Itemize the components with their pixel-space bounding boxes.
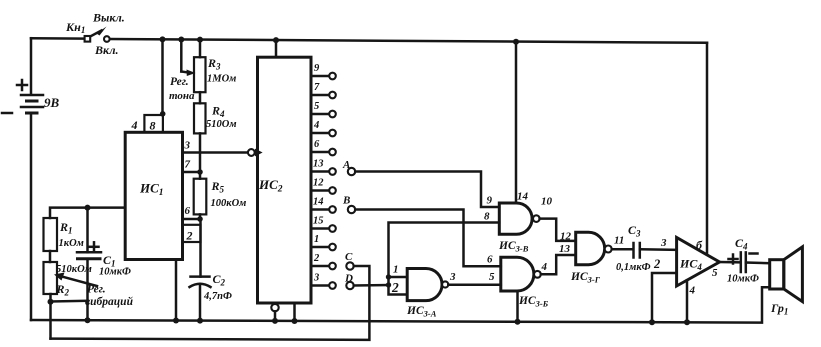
svg-text:6: 6	[314, 139, 320, 150]
resistor R4 510Ом	[194, 103, 206, 133]
svg-text:4,7пФ: 4,7пФ	[203, 291, 232, 302]
gate IC3-Б (NAND)	[501, 257, 541, 291]
svg-text:12: 12	[560, 231, 572, 243]
svg-text:3: 3	[449, 271, 456, 283]
switch Кн1	[85, 27, 110, 42]
svg-text:вибраций: вибраций	[85, 295, 134, 308]
wire R4 to pin7 node	[199, 133, 202, 172]
node D	[346, 282, 353, 289]
svg-text:Рег.: Рег.	[87, 284, 106, 296]
IC2 second bottom lead	[293, 303, 296, 321]
IC1 pin 2 box	[183, 225, 201, 242]
counter IC2 body	[258, 57, 312, 303]
svg-text:2: 2	[653, 257, 660, 271]
svg-text:8: 8	[484, 211, 490, 223]
wire R1 to R2	[49, 251, 52, 262]
capacitor C3 0,1мкФ	[634, 243, 677, 258]
wire: node A to gate IC3-В pin 9	[355, 172, 499, 208]
clock input symbol into IC2	[248, 149, 263, 157]
svg-text:5: 5	[489, 271, 495, 283]
wire: IC3-А input tie and to IC3-В pin 8	[386, 223, 500, 295]
speaker Гр1	[770, 247, 803, 302]
gate IC3-Г (NAND)	[576, 232, 612, 264]
svg-text:6: 6	[185, 205, 191, 217]
svg-text:5: 5	[314, 101, 319, 112]
gate IC3-В (NAND)	[499, 203, 539, 234]
node A	[348, 168, 355, 175]
svg-text:15: 15	[313, 216, 324, 227]
svg-text:10: 10	[541, 196, 553, 208]
svg-text:10мкФ: 10мкФ	[727, 274, 759, 285]
svg-text:тона: тона	[169, 90, 195, 102]
wire pin6 node down to C2	[199, 219, 202, 277]
svg-text:2: 2	[186, 229, 193, 243]
svg-text:1: 1	[314, 234, 319, 245]
svg-text:1: 1	[393, 264, 399, 276]
battery GB1 9В	[2, 38, 43, 320]
resistor R5 100кОм	[194, 172, 207, 219]
capacitor C4 10мкФ (electrolytic)	[729, 252, 770, 272]
node C	[346, 262, 353, 269]
svg-text:3: 3	[660, 237, 667, 249]
wire: IC3-Б pin 7 to ground	[516, 291, 519, 322]
svg-text:А: А	[342, 159, 350, 171]
op-amp IC4	[677, 238, 720, 287]
svg-text:6: 6	[487, 254, 493, 266]
svg-text:0,1мкФ: 0,1мкФ	[616, 262, 651, 273]
wire: IC3-Г output to C3	[612, 248, 633, 251]
svg-text:5: 5	[712, 267, 718, 279]
wire: +9V top rail	[31, 38, 707, 43]
wire: node B to gate IC3-Б pin 6	[355, 210, 501, 267]
op IC1 (timer) body	[125, 132, 182, 259]
svg-text:8: 8	[150, 119, 156, 133]
wire: IC1 pin 1 to ground	[175, 260, 178, 321]
wire: IC1 pin 7 stub	[183, 169, 203, 175]
svg-text:3: 3	[313, 273, 319, 284]
IC2 output pin stubs with circles	[311, 73, 336, 289]
wire: IC4 pin 2 to ground	[652, 273, 677, 322]
wire: IC4 pin 4 to ground	[686, 280, 689, 322]
gate IC3-А (NAND)	[407, 269, 448, 301]
wire: IC4 pin 6 to +9V rail	[706, 43, 709, 255]
wire: IC3-В output to IC3-Г pin 12	[540, 219, 576, 241]
svg-text:7: 7	[314, 82, 320, 93]
R3 wiper wire from rail	[181, 40, 195, 77]
svg-text:14: 14	[313, 197, 324, 208]
svg-text:D: D	[344, 273, 353, 285]
svg-text:9В: 9В	[44, 95, 60, 110]
svg-text:2: 2	[313, 253, 320, 264]
wire: ground bottom rail	[31, 287, 770, 322]
wire: IC3-А output to IC3-Б pin 5	[448, 283, 501, 286]
svg-text:Выкл.: Выкл.	[92, 11, 125, 25]
svg-text:С: С	[345, 251, 353, 263]
wire: rail drop to IC3-В pin 14	[515, 42, 518, 203]
svg-text:13: 13	[313, 159, 324, 170]
capacitor C1 10мкФ (electrolytic)	[77, 208, 101, 321]
svg-text:9: 9	[314, 63, 320, 74]
svg-text:4: 4	[689, 285, 696, 297]
wire: R1/C1 top node to IC1 left edge	[50, 205, 125, 218]
wire: rail drop to IC2 top	[275, 40, 278, 57]
node B	[348, 206, 355, 213]
wire: IC3-Б output to IC3-Г pin 13	[541, 255, 576, 274]
svg-text:Рег.: Рег.	[170, 76, 189, 88]
IC2 pin number labels	[313, 63, 324, 284]
wire: node D to IC3-А inputs	[354, 284, 389, 287]
resistor R1	[44, 218, 58, 251]
svg-text:12: 12	[313, 178, 324, 189]
wire: IC4 output pin 5	[720, 261, 741, 264]
svg-text:б: б	[696, 238, 703, 252]
svg-text:1МОм: 1МОм	[207, 74, 236, 85]
wire: rail drop to IC1 pins 4/8	[160, 39, 166, 116]
svg-text:4: 4	[541, 261, 548, 273]
svg-text:9: 9	[487, 195, 493, 207]
svg-text:В: В	[342, 195, 350, 207]
capacitor C2 4,7пФ	[190, 277, 211, 321]
wire: R2 bottom node X	[48, 294, 88, 339]
svg-text:14: 14	[517, 191, 529, 203]
junction dots on top rail	[160, 36, 520, 44]
junction dots on ground rail	[85, 317, 691, 325]
svg-text:11: 11	[614, 235, 624, 247]
svg-text:10мкФ: 10мкФ	[99, 267, 131, 278]
svg-text:13: 13	[559, 243, 571, 255]
svg-text:2: 2	[391, 280, 399, 295]
wire: node C down and left to R2 bottom (rail 2)	[51, 266, 370, 340]
svg-text:1кОм: 1кОм	[59, 238, 84, 249]
svg-text:7: 7	[185, 159, 191, 171]
svg-text:Вкл.: Вкл.	[94, 43, 118, 57]
svg-text:100кОм: 100кОм	[211, 198, 247, 209]
wire: IC1 pin 3 output	[183, 151, 249, 154]
IC1 pin 8 box	[144, 115, 163, 132]
IC2 bottom lead with circle	[271, 303, 278, 321]
resistor R2 (variable)	[44, 262, 98, 294]
svg-text:510Ом: 510Ом	[206, 119, 237, 130]
svg-text:4: 4	[131, 118, 138, 132]
svg-text:3: 3	[184, 140, 191, 152]
svg-text:4: 4	[313, 120, 319, 131]
wire R3 to R4	[199, 92, 202, 103]
resistor R3 (variable, tone)	[194, 40, 206, 93]
wire: IC1 pin 6 stub	[183, 216, 203, 222]
